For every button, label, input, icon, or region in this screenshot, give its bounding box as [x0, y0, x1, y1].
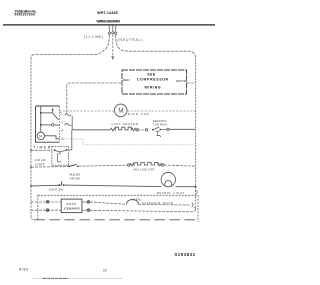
- svg-text:LIGHT SW.: LIGHT SW.: [49, 187, 64, 191]
- wire neutral from plug to right trunk: [116, 34, 196, 58]
- mullion heater R2: [130, 162, 162, 166]
- power plug prong L1: [108, 25, 110, 34]
- bottom dashed wire (icemaker box bottom): [34, 219, 199, 221]
- icemaker bottom wire right: [82, 209, 87, 211]
- svg-text:RED: RED: [123, 78, 130, 82]
- icemaker dashed box: [38, 195, 198, 222]
- svg-text:HTR. SW.: HTR. SW.: [70, 177, 81, 181]
- evap fan wire: [59, 110, 195, 112]
- svg-text:1: 1: [62, 120, 64, 124]
- light switch wire: [31, 184, 61, 187]
- red wire to compressor: [67, 83, 122, 113]
- svg-text:REFRIG. LIGHT: REFRIG. LIGHT: [157, 191, 185, 195]
- mullion heater switch: [68, 166, 70, 168]
- svg-text:ICEMAKER: ICEMAKER: [64, 207, 81, 211]
- svg-text:DEFROST: DEFROST: [153, 119, 167, 123]
- mullion switch wire: [31, 165, 68, 168]
- defrost heater wire: [72, 129, 110, 131]
- wire defrost to trunk: [161, 128, 167, 130]
- icemaker inner box: [61, 199, 82, 213]
- connector bracket on right trunk: [196, 190, 197, 193]
- svg-text:WHITE: WHITE: [176, 79, 186, 83]
- timer box: [36, 106, 60, 142]
- footer dotted rule: [32, 277, 123, 279]
- svg-text:3: 3: [62, 137, 64, 141]
- light junction dot: [30, 185, 32, 187]
- timer contact junction dots: [40, 112, 42, 114]
- timer terminal3 wire to trunk: [64, 139, 196, 145]
- connector top-right: [87, 201, 90, 204]
- cold control box: [52, 147, 69, 166]
- header rule: [3, 24, 215, 26]
- mullion heater connector right: [162, 164, 164, 166]
- solenoid coil L1: [127, 199, 139, 204]
- svg-text:8/96: 8/96: [19, 268, 28, 272]
- ground wire (dashed with arrow): [112, 34, 114, 56]
- svg-text:THERMO.: THERMO.: [153, 122, 169, 126]
- right trunk wire (neutral): [195, 59, 197, 208]
- power plug prong ground: [112, 25, 114, 34]
- svg-text:M: M: [39, 135, 42, 139]
- svg-text:CONT.: CONT.: [35, 162, 46, 166]
- white wire compressor to trunk: [187, 82, 196, 84]
- wire mullion to trunk: [164, 165, 196, 166]
- svg-text:4: 4: [62, 128, 64, 132]
- mullion junction dot: [30, 166, 32, 168]
- terminal connector hump 1: [65, 123, 69, 125]
- wire solenoid to trunk: [139, 203, 192, 206]
- svg-text:WIRING: WIRING: [145, 86, 161, 90]
- svg-text:(NEUTRAL): (NEUTRAL): [118, 38, 143, 42]
- icemaker bottom wire: [31, 209, 61, 211]
- terminal connector hump 2: [65, 114, 69, 116]
- thermostat bulb: [156, 131, 161, 137]
- evap fan motor M1: [114, 104, 127, 117]
- compressor box U1: [122, 70, 187, 94]
- vertical wire timer to cold control: [71, 116, 73, 130]
- svg-text:WIRING DIAGRAM: WIRING DIAGRAM: [96, 20, 120, 24]
- connector bracket bottom end: [194, 207, 195, 212]
- connector bottom-right: [87, 209, 90, 212]
- icemaker top wire right / solenoid wire: [82, 201, 87, 203]
- svg-text:WRT-1434E: WRT-1434E: [97, 11, 119, 15]
- junction at cold control branch: [30, 149, 32, 151]
- svg-text:M: M: [118, 109, 123, 115]
- cold control out wire: [67, 149, 72, 151]
- svg-text:SEE: SEE: [147, 73, 156, 77]
- connector bottom-left: [46, 209, 49, 212]
- svg-text:COMPRESSOR: COMPRESSOR: [137, 78, 169, 82]
- svg-text:AUTO: AUTO: [66, 202, 76, 206]
- svg-text:COIL HEATER: COIL HEATER: [111, 122, 137, 126]
- ground arrowhead: [111, 56, 114, 60]
- connector bracket solenoid end: [192, 203, 193, 208]
- timer motor: [37, 132, 44, 139]
- cold control bellows: [58, 154, 61, 162]
- svg-text:MULLION: MULLION: [70, 173, 81, 177]
- connector top-left: [46, 200, 49, 203]
- svg-text:2: 2: [60, 112, 62, 116]
- svg-text:(L1 LINE): (L1 LINE): [84, 35, 103, 39]
- left trunk wire (L1): [31, 58, 34, 220]
- wire lamp to trunk: [176, 186, 196, 188]
- heater connector circles: [135, 129, 137, 131]
- svg-text:10: 10: [103, 269, 107, 273]
- svg-text:MULLION HTR.: MULLION HTR.: [134, 168, 156, 172]
- mullion heater connector left: [128, 164, 130, 166]
- wire terminal1 to heater corner: [68, 115, 72, 117]
- svg-text:S193832: S193832: [175, 252, 196, 257]
- power plug prong neutral: [115, 25, 117, 34]
- defrost thermostat S2: [152, 129, 154, 131]
- cold control wire from trunk: [31, 149, 52, 151]
- light switch S3: [58, 184, 60, 186]
- icemaker top wire: [31, 201, 61, 203]
- cold control switch: [54, 149, 56, 151]
- refrigerator lamp DS1: [161, 172, 175, 186]
- svg-text:EVAP. FAN: EVAP. FAN: [128, 112, 149, 116]
- svg-text:5995267909: 5995267909: [14, 13, 35, 17]
- wire switch to lamp: [65, 185, 162, 187]
- coil heater R1: [111, 127, 137, 131]
- timer internal wire: [41, 106, 60, 139]
- svg-text:(GRN): (GRN): [132, 197, 142, 201]
- wire to mullion heater: [79, 165, 128, 166]
- wire L1 from plug to left trunk: [31, 34, 109, 58]
